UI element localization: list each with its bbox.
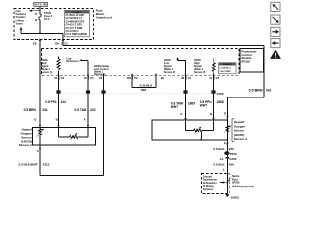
svg-text:Sensor 1: Sensor 1 (19, 143, 32, 147)
svg-text:B: B (56, 117, 58, 121)
svg-text:CONN ID: CONN ID (223, 64, 232, 66)
svg-text:0.5 BRN: 0.5 BRN (249, 89, 264, 93)
svg-text:G203: G203 (231, 195, 240, 199)
svg-text:0.5 BRN: 0.5 BRN (24, 108, 37, 112)
svg-text:3113: 3113 (43, 163, 50, 167)
svg-text:10: 10 (54, 76, 58, 80)
svg-text:C1=49 BLU: C1=49 BLU (219, 67, 231, 70)
svg-text:C1: C1 (188, 76, 192, 80)
svg-text:412: 412 (61, 100, 67, 104)
svg-text:C2=73 RED: C2=73 RED (219, 71, 231, 73)
svg-text:(PCM): (PCM) (241, 60, 249, 64)
svg-text:26: 26 (181, 76, 185, 80)
svg-text:808: 808 (141, 88, 146, 92)
svg-text:0.5 BLK/WHT: 0.5 BLK/WHT (18, 163, 38, 167)
svg-text:C2: C2 (61, 76, 65, 80)
svg-text:11: 11 (209, 76, 212, 80)
svg-text:413: 413 (90, 108, 96, 112)
svg-text:Systems: Systems (16, 23, 24, 26)
svg-text:15 A: 15 A (44, 17, 50, 21)
svg-text:A4: A4 (220, 157, 224, 161)
svg-text:L: L (223, 168, 225, 172)
svg-text:Sensor 2): Sensor 2) (194, 71, 206, 74)
svg-text:Sensor 2): Sensor 2) (164, 71, 176, 74)
svg-text:0.8 TAN: 0.8 TAN (75, 108, 87, 112)
svg-text:C2: C2 (216, 76, 220, 80)
svg-text:C2: C2 (134, 76, 138, 80)
svg-text:Sensor 2: Sensor 2 (234, 137, 247, 141)
svg-text:0.35 BLK: 0.35 BLK (140, 83, 154, 87)
svg-text:WHT: WHT (200, 104, 207, 108)
svg-text:0.8 PPL: 0.8 PPL (45, 100, 57, 104)
svg-text:1668: 1668 (217, 100, 224, 104)
svg-text:P100: P100 (217, 92, 224, 96)
svg-text:B: B (210, 112, 212, 116)
svg-text:SP205: SP205 (232, 182, 240, 185)
svg-text:Systems: Systems (203, 188, 214, 191)
svg-text:241: 241 (42, 108, 48, 112)
svg-text:C200: C200 (229, 157, 237, 161)
svg-text:HOT AT ALL TIMES: HOT AT ALL TIMES (34, 3, 47, 7)
svg-text:C7=2 BRN (w/M30): C7=2 BRN (w/M30) (66, 33, 88, 36)
svg-text:D: D (34, 117, 36, 121)
svg-text:WHT: WHT (171, 105, 178, 109)
svg-text:250: 250 (229, 163, 234, 167)
svg-text:E9: E9 (33, 42, 37, 46)
svg-text:B8: B8 (127, 76, 131, 80)
svg-text:0.5 BLK: 0.5 BLK (213, 163, 225, 167)
svg-text:241: 241 (266, 89, 272, 93)
svg-text:D: D (224, 112, 226, 116)
svg-text:29: 29 (161, 76, 165, 80)
svg-text:P100: P100 (230, 152, 237, 156)
svg-text:Sensor 1): Sensor 1) (41, 71, 53, 74)
svg-text:250: 250 (229, 147, 234, 151)
svg-text:C1: C1 (90, 76, 94, 80)
svg-text:Reference: Reference (67, 60, 80, 63)
svg-text:D9: D9 (55, 42, 59, 46)
svg-text:20: 20 (99, 76, 103, 80)
svg-text:Underhood: Underhood (96, 16, 112, 20)
svg-text:1669: 1669 (188, 101, 195, 105)
svg-text:(Soldering may vary): (Soldering may vary) (232, 186, 254, 188)
svg-text:12: 12 (84, 76, 88, 80)
svg-text:0.5 BLK: 0.5 BLK (213, 147, 225, 151)
